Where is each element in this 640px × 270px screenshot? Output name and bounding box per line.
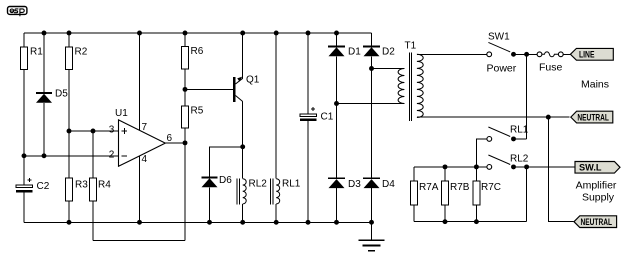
junction dot output (183, 140, 188, 145)
diode D2 (363, 33, 395, 178)
wire inverting input (pin 2) (24, 155, 119, 157)
junction bottom rail C1 (306, 220, 311, 225)
capacitor C1 (300, 33, 334, 222)
wire neutral supply down (548, 117, 573, 222)
op-amp U1 (109, 108, 173, 166)
resistor R6 (182, 33, 204, 89)
wire base of Q1 (185, 88, 233, 90)
resistor R5 (182, 89, 204, 142)
svg-text:RL2: RL2 (510, 154, 529, 165)
junction dot R7C top (474, 164, 479, 169)
svg-text:RL2: RL2 (249, 179, 268, 190)
junction dot D5 bottom (42, 153, 47, 158)
svg-text:C1: C1 (321, 112, 334, 123)
svg-text:R5: R5 (191, 106, 204, 117)
ground (359, 222, 385, 250)
relay coil RL1 (271, 33, 301, 222)
svg-text:2: 2 (109, 150, 115, 161)
transformer T1 (398, 41, 423, 122)
wire top rail (24, 32, 372, 34)
wire D6 branch (210, 147, 243, 178)
fuse (537, 52, 570, 74)
svg-text:Amplifier: Amplifier (576, 180, 617, 192)
capacitor C2 (16, 156, 50, 223)
junction dot SW1 out (511, 52, 516, 57)
junction top rail pin7 (137, 31, 142, 36)
wire feedback up (184, 143, 186, 240)
junction dot R7B bottom (443, 219, 448, 224)
svg-text:7: 7 (142, 122, 148, 133)
svg-text:SW.L: SW.L (579, 163, 602, 173)
wire SW1 to fuse (514, 53, 538, 55)
wire soft start bypass down (526, 167, 528, 222)
relay contact RL1 (476, 124, 528, 167)
diode D5 (36, 33, 68, 156)
diode D3 (328, 178, 361, 222)
wire feedback bottom (93, 239, 185, 241)
wire op-amp output pin 6 (165, 142, 185, 144)
svg-text:R1: R1 (30, 47, 43, 58)
svg-text:D1: D1 (348, 46, 361, 57)
svg-text:4: 4 (142, 154, 148, 165)
resistor R4 (90, 131, 112, 240)
svg-text:RL1: RL1 (510, 124, 529, 135)
wire op-amp pin 4 to ground rail (139, 156, 141, 222)
svg-text:Supply: Supply (582, 192, 615, 204)
resistor R7A (410, 167, 438, 222)
svg-text:Fuse: Fuse (539, 62, 563, 74)
junction dot neutral branch (546, 115, 551, 120)
junction bottom rail RL1 (274, 220, 279, 225)
junction dot R2-R3 (67, 129, 72, 134)
resistor R7B (442, 167, 470, 222)
svg-text:Mains: Mains (581, 79, 609, 91)
junction dot R5-R6 (183, 87, 188, 92)
junction top rail R6 (183, 31, 188, 36)
svg-text:Power: Power (487, 63, 517, 75)
wire mains neutral (417, 116, 570, 118)
wire switched live down (526, 54, 528, 139)
transistor Q1 (233, 33, 260, 179)
svg-text:C2: C2 (37, 181, 50, 192)
junction bottom rail D3 (334, 220, 339, 225)
wire R7 bottom rail (414, 221, 527, 223)
wire op-amp pin 7 supply (139, 33, 141, 130)
wire mains live top (417, 53, 487, 55)
relay coil RL2 (237, 178, 267, 222)
esp logo (8, 7, 27, 17)
junction bottom rail ground (369, 220, 374, 225)
wire noninverting input (pin 3) (69, 130, 119, 132)
diode D4 (363, 178, 395, 222)
junction top rail D5 (42, 31, 47, 36)
wire RL2 out to SW.L (514, 166, 576, 168)
junction bottom rail R3 (67, 220, 72, 225)
svg-text:LINE: LINE (579, 50, 595, 60)
svg-text:Q1: Q1 (246, 75, 260, 86)
svg-text:D3: D3 (348, 179, 361, 190)
junction bottom rail D6 (207, 220, 212, 225)
svg-text:R4: R4 (98, 180, 111, 191)
svg-text:R6: R6 (191, 46, 204, 57)
wire bottom rail (24, 221, 372, 223)
diode D1 (328, 33, 361, 178)
tag LINE (570, 48, 613, 60)
svg-text:U1: U1 (115, 108, 128, 119)
junction dot pin2 left (22, 153, 27, 158)
wire secondary top (372, 68, 405, 70)
svg-text:D5: D5 (55, 89, 68, 100)
svg-text:D2: D2 (382, 46, 395, 57)
resistor R2 (66, 33, 88, 131)
resistor R7C (473, 167, 501, 222)
resistor R3 (66, 131, 89, 222)
svg-text:D6: D6 (219, 175, 232, 186)
junction dot R4 top (91, 129, 96, 134)
junction dot D2 anode (369, 66, 374, 71)
svg-text:SW1: SW1 (488, 32, 510, 43)
svg-text:R7C: R7C (481, 182, 501, 193)
junction bottom rail RL2 (240, 220, 245, 225)
junction top rail Q1 (240, 31, 245, 36)
svg-text:R2: R2 (75, 47, 88, 58)
junction dot line branch (524, 52, 529, 57)
svg-text:R3: R3 (75, 180, 88, 191)
wire secondary bottom (337, 103, 405, 105)
junction dot R7B top (443, 164, 448, 169)
tag SW.L (575, 162, 620, 174)
svg-text:6: 6 (167, 133, 173, 144)
tag NEUTRAL lower (574, 216, 617, 228)
svg-text:T1: T1 (405, 41, 417, 52)
junction top rail D1 (334, 31, 339, 36)
relay contact RL2 (487, 154, 529, 170)
svg-text:NEUTRAL: NEUTRAL (581, 217, 613, 227)
diode D6 (202, 175, 233, 222)
junction dot RL2 out (524, 164, 529, 169)
svg-text:NEUTRAL: NEUTRAL (577, 113, 609, 123)
junction top rail RL1 (274, 31, 279, 36)
svg-text:3: 3 (109, 125, 115, 136)
svg-text:R7B: R7B (450, 182, 470, 193)
tag NEUTRAL upper (571, 111, 613, 123)
junction top rail R2 (67, 31, 72, 36)
junction top rail C1 (306, 31, 311, 36)
svg-text:R7A: R7A (419, 182, 439, 193)
resistor R1 (21, 33, 44, 156)
wire R7 top rail (414, 166, 487, 168)
wire to RL1 contact (514, 138, 527, 140)
junction bottom rail pin4 (137, 220, 142, 225)
junction dot R7C bottom (474, 219, 479, 224)
junction dot Q1 emitter branch (240, 144, 245, 149)
svg-text:D4: D4 (382, 179, 395, 190)
svg-text:RL1: RL1 (282, 179, 301, 190)
junction dot D1 anode (334, 101, 339, 106)
switch SW1 (487, 32, 517, 75)
